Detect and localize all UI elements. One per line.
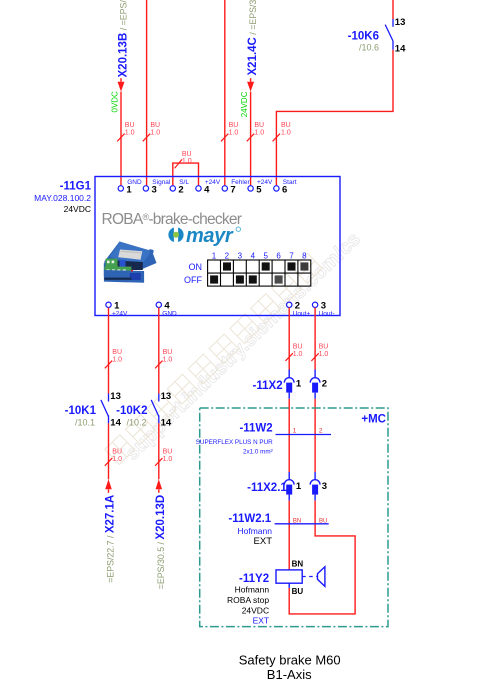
pin 3 Signal — [143, 179, 171, 196]
svg-text:ROBA stop: ROBA stop — [227, 595, 269, 605]
svg-text:2: 2 — [319, 427, 323, 434]
svg-text:BU: BU — [150, 122, 160, 129]
svg-text:BU: BU — [112, 349, 122, 356]
svg-text:-10K6: -10K6 — [348, 30, 379, 42]
svg-text:mayr: mayr — [186, 225, 234, 247]
svg-text:X21.4C / =EPS/30.3: X21.4C / =EPS/30.3 — [247, 0, 259, 76]
svg-text:1: 1 — [126, 184, 132, 195]
svg-text:13: 13 — [395, 17, 406, 28]
svg-text:-10K2: -10K2 — [116, 405, 147, 417]
DIP OFF filled squares 1,3,4,6 — [210, 275, 283, 283]
svg-text:S/L: S/L — [179, 179, 189, 186]
svg-text:/10.1: /10.1 — [75, 418, 95, 428]
svg-text:BU: BU — [163, 349, 173, 356]
device photo (stylized) — [104, 242, 157, 283]
MC enclosure box — [200, 408, 388, 627]
DIP ON filled squares 2,5,7,8 — [223, 262, 308, 270]
interrupt arrow X27.1A — [105, 479, 112, 489]
svg-text:MAY.028.100.2: MAY.028.100.2 — [34, 193, 91, 203]
svg-text:1: 1 — [296, 481, 302, 492]
interrupt arrow X21.4C — [250, 78, 252, 82]
svg-text:14: 14 — [395, 44, 406, 55]
svg-text:BU: BU — [281, 122, 291, 129]
wire B4 into MC box — [314, 399, 316, 472]
wire label BU 1.0 on W4 — [221, 122, 238, 141]
svg-text:BU: BU — [182, 151, 192, 158]
wire B1 from pin1 to contact -10K1 — [108, 308, 110, 394]
svg-text:Hofmann: Hofmann — [238, 526, 273, 536]
svg-text:1.0: 1.0 — [254, 130, 264, 137]
svg-text:/10.2: /10.2 — [126, 418, 146, 428]
contact -10K6 — [385, 19, 393, 50]
svg-text:BU: BU — [163, 449, 173, 456]
bottom pin 3 Uout- — [312, 301, 334, 318]
bottom pin 2 Uout+ — [287, 301, 311, 318]
svg-text:1.0: 1.0 — [293, 351, 303, 358]
svg-text:24VDC: 24VDC — [240, 91, 249, 117]
svg-text:1: 1 — [212, 252, 217, 261]
wire W5 from arrow to pin 5 — [250, 92, 252, 186]
svg-text:-11G1: -11G1 — [60, 180, 92, 192]
svg-text:Uout+: Uout+ — [293, 310, 311, 317]
svg-text:24VDC: 24VDC — [64, 204, 91, 214]
pin 6 Start — [274, 179, 297, 196]
svg-text:1.0: 1.0 — [112, 357, 122, 364]
wire label BU 1.0 on jumper — [175, 151, 192, 168]
pin 5 +24V — [248, 179, 273, 196]
svg-text:=EPS/22.7 / X27.1A: =EPS/22.7 / X27.1A — [105, 495, 117, 583]
svg-text:1.0: 1.0 — [112, 456, 122, 463]
dashed link to brake symbol — [302, 576, 317, 578]
svg-text:1.0: 1.0 — [163, 456, 173, 463]
svg-text:+24V: +24V — [205, 179, 221, 186]
wire label BU 1.0 on B4 — [311, 343, 328, 361]
svg-text:X20.13B / =EPS/30.1: X20.13B / =EPS/30.1 — [118, 0, 130, 78]
svg-text:+MC: +MC — [361, 413, 386, 425]
wire W2 Signal from top — [146, 0, 148, 186]
pin 2 S/L — [170, 179, 189, 196]
svg-text:EXT: EXT — [254, 536, 273, 547]
svg-text:BU: BU — [125, 122, 135, 129]
S/L jumper loop pin2-pin4 — [173, 163, 199, 186]
terminal -11X2.1:3 — [310, 472, 327, 501]
wire B2 from pin4 to contact -10K2 — [158, 308, 160, 394]
cable -11W2 — [276, 434, 332, 436]
svg-text:1.0: 1.0 — [319, 351, 329, 358]
wire B3 to cable W2.1 — [288, 501, 290, 570]
svg-text:-11W2.1: -11W2.1 — [228, 513, 271, 525]
brake symbol — [318, 567, 325, 587]
svg-text:7: 7 — [289, 252, 294, 261]
svg-text:1.0: 1.0 — [163, 357, 173, 364]
wire B4 Uout- down — [314, 308, 316, 370]
svg-text:5: 5 — [256, 184, 262, 195]
svg-text:4: 4 — [251, 252, 256, 261]
svg-text:BU: BU — [293, 343, 303, 350]
svg-text:8: 8 — [302, 252, 307, 261]
svg-text:=EPS/30.5 / X20.13D: =EPS/30.5 / X20.13D — [155, 495, 167, 589]
terminal -11X2:1 — [284, 370, 302, 399]
svg-text:0VDC: 0VDC — [111, 91, 120, 113]
svg-text:1.0: 1.0 — [229, 130, 239, 137]
svg-text:Fehler: Fehler — [231, 179, 250, 186]
wire B4 to loop — [289, 501, 355, 614]
terminal -11X2.1:1 — [284, 472, 302, 501]
svg-text:3: 3 — [322, 481, 327, 492]
svg-text:24VDC: 24VDC — [242, 605, 269, 615]
contact -10K1 — [101, 394, 109, 424]
svg-text:-11X2: -11X2 — [253, 380, 283, 392]
wire W4 Fehler from top — [224, 0, 226, 186]
wire label BU 1.0 on B3 — [286, 343, 303, 361]
wire B3 Uout+ down — [288, 308, 290, 370]
wire B3 into MC box — [288, 399, 290, 472]
svg-text:1: 1 — [296, 379, 302, 390]
svg-text:SUPERFLEX PLUS N PUR: SUPERFLEX PLUS N PUR — [196, 439, 273, 446]
svg-text:BN: BN — [293, 519, 301, 525]
svg-text:2: 2 — [322, 379, 327, 390]
svg-text:1.0: 1.0 — [281, 130, 291, 137]
svg-text:OFF: OFF — [184, 275, 202, 285]
wire from -10K6 down, left and to pin 6 — [276, 50, 393, 186]
cable -11W2.1 — [275, 523, 329, 525]
wire W6 from top to contact -10K6 — [392, 0, 394, 19]
svg-text:GND: GND — [162, 310, 177, 317]
svg-text:BU: BU — [292, 587, 304, 596]
svg-text:1.0: 1.0 — [125, 130, 135, 137]
wire label BU 1.0 on B1 upper — [105, 349, 122, 368]
wire label BU 1.0 on B2 upper — [155, 349, 172, 368]
wire label BU 1.0 on B1 lower — [105, 449, 122, 466]
svg-text:6: 6 — [282, 184, 287, 195]
svg-text:B1-Axis: B1-Axis — [267, 667, 312, 682]
wire B2 lower to arrow — [158, 423, 160, 479]
svg-text:1.0: 1.0 — [150, 130, 160, 137]
watermark — [105, 228, 365, 464]
svg-text:13: 13 — [110, 391, 121, 402]
svg-text:BU: BU — [319, 519, 327, 525]
pin 7 Fehler — [222, 179, 250, 196]
wire W1 from arrow to pin 1 — [120, 92, 122, 186]
wire label BU 1.0 on pin6 branch — [273, 122, 291, 141]
interrupt arrow X20.13D — [156, 479, 163, 489]
DIP switch grid — [208, 260, 311, 286]
pin 4 +24V — [196, 179, 221, 196]
wire B1 lower to arrow — [108, 423, 110, 479]
DIP switch header numbers — [212, 252, 307, 261]
svg-text:BN: BN — [292, 560, 304, 569]
svg-text:13: 13 — [161, 391, 172, 402]
svg-text:/10.6: /10.6 — [359, 43, 379, 53]
svg-text:3: 3 — [152, 184, 157, 195]
svg-text:EXT: EXT — [253, 616, 270, 626]
svg-text:2x1.0 mm²: 2x1.0 mm² — [243, 448, 273, 455]
terminal -11X2:2 — [310, 370, 327, 399]
svg-text:Hofmann: Hofmann — [235, 584, 270, 594]
device -11G1 block outline — [95, 177, 340, 316]
svg-text:Signal: Signal — [152, 179, 171, 186]
svg-text:BU: BU — [319, 343, 329, 350]
mayr logo — [168, 225, 240, 247]
contact -10K2 — [151, 394, 159, 424]
svg-text:Uout-: Uout- — [319, 310, 335, 317]
brake coil -11Y2 — [276, 570, 302, 583]
wire label BU 1.0 on W2 — [143, 122, 160, 141]
svg-text:1.0: 1.0 — [182, 158, 192, 165]
svg-text:4: 4 — [204, 184, 210, 195]
svg-text:BU: BU — [112, 449, 122, 456]
svg-text:BU: BU — [254, 122, 264, 129]
bottom pin 1 +24V — [106, 301, 128, 318]
svg-text:3: 3 — [238, 252, 243, 261]
svg-text:14: 14 — [110, 418, 121, 429]
svg-text:Safety brake M60: Safety brake M60 — [239, 652, 341, 667]
svg-text:-10K1: -10K1 — [65, 405, 97, 417]
svg-text:5: 5 — [263, 252, 268, 261]
pin 1 GND — [118, 179, 142, 196]
svg-text:GND: GND — [127, 179, 142, 186]
svg-text:-11Y2: -11Y2 — [239, 573, 269, 585]
svg-text:BU: BU — [229, 122, 239, 129]
svg-text:6: 6 — [276, 252, 281, 261]
coil bottom stub — [288, 583, 290, 588]
svg-text:+24V: +24V — [257, 179, 273, 186]
svg-text:-11W2: -11W2 — [239, 423, 272, 435]
interrupt arrow X20.13B — [120, 78, 122, 82]
wire label BU 1.0 on W1 — [117, 122, 134, 141]
wire label BU 1.0 on W5 — [247, 122, 264, 141]
svg-text:Start: Start — [283, 179, 297, 186]
svg-text:+24V: +24V — [112, 310, 128, 317]
svg-text:7: 7 — [230, 184, 235, 195]
svg-text:2: 2 — [178, 184, 183, 195]
wire label BU 1.0 on B2 lower — [155, 449, 172, 466]
svg-text:2: 2 — [225, 252, 230, 261]
bottom pin 4 GND — [156, 301, 177, 318]
svg-text:-11X2.1: -11X2.1 — [247, 482, 287, 494]
svg-text:ON: ON — [189, 262, 203, 272]
svg-text:14: 14 — [161, 418, 172, 429]
svg-text:1: 1 — [293, 427, 297, 434]
